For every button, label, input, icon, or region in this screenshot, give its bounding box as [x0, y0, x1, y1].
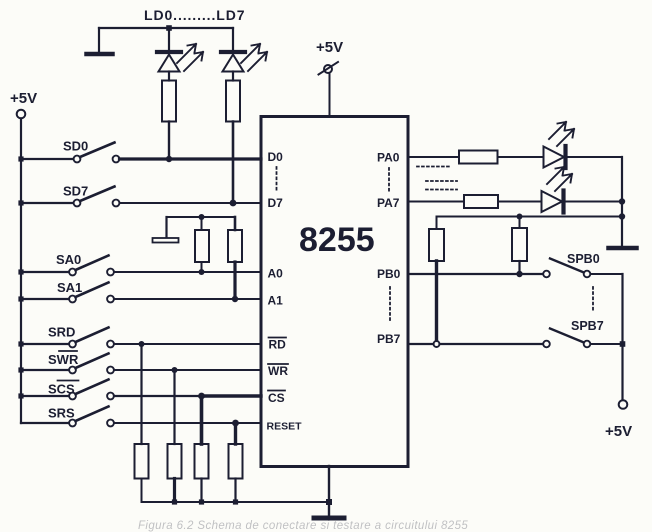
wire R9 to ground rail	[200, 479, 202, 503]
dotted line PB0..PB7	[389, 287, 391, 320]
node bus/SD7	[18, 200, 23, 205]
wire R12 to LED4	[498, 201, 542, 203]
wire R8 to ground rail	[173, 479, 176, 503]
svg-text:SD0: SD0	[63, 139, 88, 154]
wire SPB7 to +5V branch	[591, 343, 623, 345]
switch SA0	[21, 252, 114, 275]
switch SPB7	[543, 319, 604, 347]
svg-text:SA0: SA0	[56, 252, 81, 267]
wire IC GND pin	[328, 466, 330, 517]
wire SCS to CS pin	[114, 395, 261, 397]
node A0/R5 junction	[199, 269, 205, 275]
wire SD7 to D7 pin	[120, 202, 262, 204]
resistor R2 (LD7 series)	[226, 72, 240, 122]
svg-text:WR: WR	[268, 364, 288, 378]
LED LD0	[157, 28, 203, 72]
wire RESET row to R10	[234, 423, 237, 444]
switch SWR	[21, 351, 114, 373]
wire Vcc to IC top	[329, 74, 331, 117]
node CS row drop	[198, 393, 205, 400]
wire pulldown rail	[167, 216, 236, 218]
dotted SPB0..SPB7	[592, 287, 594, 310]
node pull-up rail/ground branch	[619, 213, 625, 219]
node bus/SCS	[18, 393, 23, 398]
resistor R8 (WR pulldown)	[168, 444, 182, 479]
wire SA0 to A0 pin	[114, 271, 261, 273]
wire R13 to PB7 row	[435, 261, 438, 341]
svg-text:SD7: SD7	[63, 184, 88, 199]
dotted PA1..PA6 stubs	[417, 167, 457, 190]
svg-text:Figura 6.2 Schema de conectar: Figura 6.2 Schema de conectare si testar…	[138, 520, 468, 532]
terminal +5V left	[17, 110, 26, 119]
pin label CS with overline	[268, 391, 285, 406]
wire top rail to ground	[99, 27, 233, 29]
svg-text:+5V: +5V	[316, 39, 343, 56]
svg-text:SWR: SWR	[48, 352, 79, 367]
wire LED3 to ground branch	[568, 156, 623, 158]
node rail/R10	[233, 499, 238, 504]
wire PB7 pin to switch	[409, 343, 544, 345]
wire WR row to R8	[173, 370, 175, 444]
svg-text:PA0: PA0	[377, 151, 400, 165]
resistor R11 (PA0 series)	[459, 151, 498, 164]
wire CS row to R9	[200, 396, 204, 444]
node WR row drop	[172, 367, 178, 373]
switch SPB0	[543, 252, 600, 277]
switch SRS	[21, 406, 114, 427]
wire LED4 to ground branch	[566, 201, 623, 203]
resistor R1 (LD0 series)	[162, 72, 176, 122]
svg-text:+5V: +5V	[10, 90, 37, 107]
node A1/R6 junction	[232, 296, 238, 302]
node rail/LD0 junction	[166, 25, 172, 31]
svg-text:8255: 8255	[299, 221, 375, 259]
switch SCS	[21, 380, 114, 400]
node PB7/R13 junction	[434, 341, 440, 347]
svg-text:PB0: PB0	[377, 267, 401, 281]
resistor R14 (PB0)	[512, 217, 527, 262]
svg-text:LD0.........LD7: LD0.........LD7	[144, 7, 245, 23]
node RESET row drop	[232, 420, 239, 427]
wire right +5V branch	[621, 274, 623, 400]
svg-text:PB7: PB7	[377, 332, 401, 346]
IC U1 8255 body	[261, 117, 408, 467]
wire SD0 to D0 pin	[120, 157, 262, 160]
resistor R7 (RD pulldown)	[135, 444, 149, 479]
resistor R10 (RESET pulldown)	[229, 444, 243, 479]
node PB0/R14 junction	[516, 271, 522, 277]
node bus/SRD	[18, 341, 23, 346]
wire R10 to ground rail	[234, 479, 236, 503]
svg-text:A1: A1	[268, 294, 284, 308]
resistor R6 (A1 pulldown)	[228, 217, 242, 262]
svg-text:SPB0: SPB0	[567, 252, 600, 266]
node bus/SD0	[18, 156, 23, 161]
mid ground (A0/A1 pulldowns)	[153, 217, 179, 243]
pin label WR with overline	[268, 364, 288, 378]
node rail/R5	[199, 214, 205, 220]
node rail/R8	[172, 499, 177, 504]
terminal +5V top (crossed circle)	[319, 62, 339, 75]
wire R7 to ground rail	[141, 479, 143, 503]
node bus/SA0	[18, 269, 23, 274]
node rail/GND pin	[326, 499, 332, 505]
wire right ground branch	[621, 157, 623, 246]
svg-text:A0: A0	[268, 267, 284, 281]
resistor R12 (PA7 series)	[464, 195, 498, 208]
switch SD0	[21, 139, 119, 163]
wire R1 to D0 row	[168, 122, 170, 160]
node bus/SA1	[18, 296, 23, 301]
resistor R9 (CS pulldown)	[195, 444, 209, 479]
switch SRD	[21, 325, 114, 348]
node PA7/ground branch	[619, 198, 625, 204]
wire PA7 pin to R12	[409, 201, 465, 203]
svg-text:SPB7: SPB7	[571, 319, 604, 333]
node D0/LD0 junction	[166, 156, 172, 162]
node SPB7/+5V branch	[620, 341, 626, 347]
wire SRS to RESET pin	[114, 422, 261, 424]
svg-text:SRS: SRS	[48, 406, 75, 421]
wire RD row to R7	[140, 344, 142, 444]
svg-text:D0: D0	[268, 150, 284, 164]
wire SRD to RD pin	[114, 343, 261, 345]
wire SA1 to A1 pin	[114, 298, 261, 300]
wire PB0 pin to switch	[409, 273, 544, 275]
svg-text:SRD: SRD	[48, 325, 75, 340]
wire +5V bus	[20, 119, 22, 424]
node D7/LD7 junction	[230, 200, 237, 207]
LED LD7	[221, 28, 267, 72]
wire PA0 pin to R11	[409, 156, 460, 158]
wire R2 to D7 row	[232, 122, 235, 204]
ground (below IC)	[314, 516, 344, 521]
svg-text:CS: CS	[268, 391, 285, 405]
switch SA1	[21, 280, 114, 302]
svg-text:PA7: PA7	[377, 196, 400, 210]
node rail/R14	[517, 214, 523, 220]
svg-text:D7: D7	[268, 196, 284, 210]
dotted line PA0..PA7	[388, 168, 390, 192]
node RD row drop	[139, 341, 145, 347]
svg-text:RD: RD	[269, 338, 287, 352]
dotted line D0..D7	[276, 167, 278, 192]
node rail/R9	[199, 499, 204, 504]
wire R6 to A1 row	[233, 262, 236, 299]
wire R11 to LED3	[498, 156, 544, 158]
switch SD7	[21, 184, 119, 207]
wire SPB0 to +5V branch	[591, 273, 623, 275]
resistor R5 (A0 pulldown)	[195, 217, 209, 262]
wire rail down to ground	[98, 28, 100, 52]
wire PB resistor rail	[437, 216, 623, 218]
ground (right)	[609, 246, 637, 251]
terminal +5V bottom right	[619, 400, 628, 409]
svg-text:+5V: +5V	[605, 423, 632, 440]
wire SWR to WR pin	[114, 369, 261, 371]
ground (top-left)	[87, 52, 113, 57]
wire bottom ground rail	[142, 501, 330, 503]
svg-text:RESET: RESET	[267, 421, 303, 433]
resistor R13 (PB7)	[429, 217, 444, 262]
LED PA0	[544, 122, 575, 168]
svg-text:SA1: SA1	[57, 280, 82, 295]
wire R14 to PB0 row	[518, 261, 520, 274]
LED PA7	[542, 167, 573, 213]
wire R5 to A0 row	[201, 262, 203, 272]
pin label RD with overline	[269, 338, 287, 352]
node bus/SWR	[18, 367, 23, 372]
